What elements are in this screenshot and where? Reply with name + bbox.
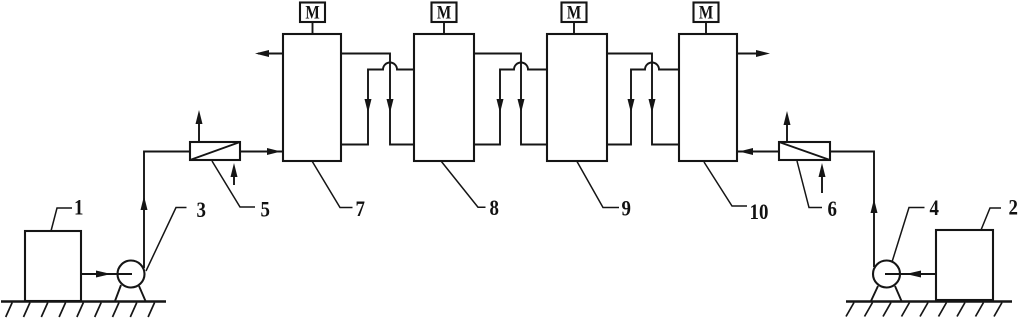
svg-text:M: M bbox=[567, 2, 581, 23]
svg-text:2: 2 bbox=[1009, 195, 1018, 220]
svg-text:M: M bbox=[699, 2, 713, 23]
svg-text:8: 8 bbox=[490, 196, 499, 221]
svg-text:6: 6 bbox=[828, 197, 837, 222]
svg-text:5: 5 bbox=[261, 197, 270, 222]
svg-text:3: 3 bbox=[197, 198, 206, 223]
svg-text:1: 1 bbox=[74, 195, 83, 220]
svg-text:7: 7 bbox=[356, 197, 365, 222]
svg-text:9: 9 bbox=[622, 196, 631, 221]
svg-text:M: M bbox=[437, 2, 451, 23]
svg-text:10: 10 bbox=[750, 200, 769, 225]
svg-text:4: 4 bbox=[930, 196, 939, 221]
svg-text:M: M bbox=[305, 2, 319, 23]
